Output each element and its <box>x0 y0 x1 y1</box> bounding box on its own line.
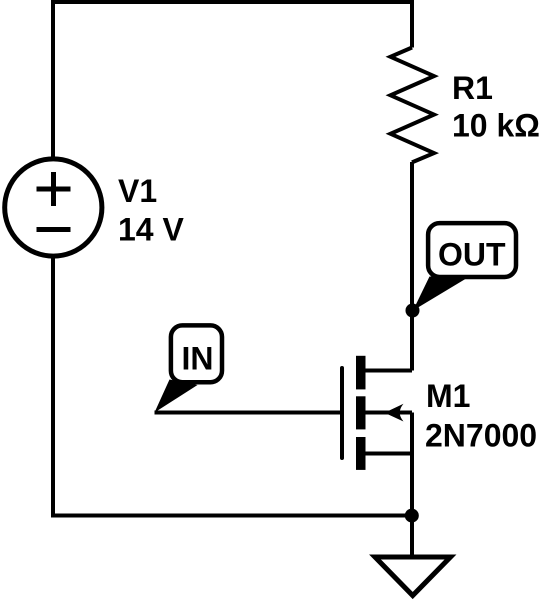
transistor M1 body arrow <box>385 404 404 422</box>
wire body/source down to bottom rail <box>410 413 414 516</box>
transistor M1 drain channel bar <box>356 356 366 390</box>
wire gate <box>155 411 343 415</box>
transistor M1 body channel bar <box>356 396 366 429</box>
OUT callout box <box>428 223 516 277</box>
svg-text:10 kΩ: 10 kΩ <box>452 108 540 144</box>
wire source stub <box>361 452 412 456</box>
wire node to drain <box>410 311 414 371</box>
transistor M1 source channel bar <box>356 437 366 470</box>
svg-text:M1: M1 <box>426 378 470 414</box>
svg-text:14 V: 14 V <box>118 212 184 248</box>
wire to ground <box>410 516 414 558</box>
svg-text:V1: V1 <box>118 173 157 209</box>
OUT callout tail <box>413 277 470 311</box>
svg-text:R1: R1 <box>452 70 493 106</box>
wire left rail upper <box>51 0 55 158</box>
ground <box>375 557 451 596</box>
wire left rail lower <box>51 257 55 518</box>
wire right rail resistor to node <box>410 162 414 311</box>
resistor R1 zigzag <box>391 48 435 163</box>
voltage source V1 circle <box>5 159 102 256</box>
svg-text:IN: IN <box>182 340 214 376</box>
transistor M1 gate line <box>340 368 344 458</box>
IN callout box <box>171 325 222 382</box>
svg-text:2N7000: 2N7000 <box>425 418 537 454</box>
IN callout tail <box>155 380 198 413</box>
node OUT junction dot <box>406 304 420 318</box>
wire top rail <box>51 0 414 4</box>
wire right rail upper <box>410 0 414 48</box>
wire drain stub <box>361 369 412 373</box>
svg-text:OUT: OUT <box>438 237 506 273</box>
node bottom junction dot <box>405 509 419 523</box>
wire body stub <box>361 411 412 415</box>
V1 plus sign <box>37 172 71 206</box>
wire bottom rail <box>51 514 412 518</box>
V1 minus sign <box>37 227 71 232</box>
